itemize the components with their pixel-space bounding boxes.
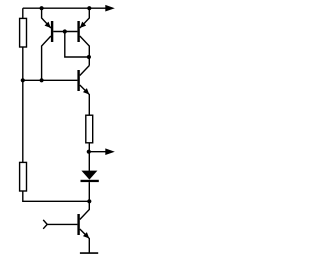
node dot left column node A [21,78,25,82]
node dot base net [63,29,67,33]
wire Q1 emitter lead [42,8,51,28]
ground [80,252,98,254]
transistor Q1 emitter arrow (PNP) [45,22,53,30]
diode D1 cathode bar [81,180,99,182]
resistor R1 [20,18,27,47]
supply output arrow [105,5,115,12]
transistor Q1 base bar [51,21,53,42]
resistor R3 [86,115,93,143]
wire top supply rail [23,7,106,9]
wire Q4 emitter lead [80,229,90,253]
wire output tap [89,151,106,153]
wire diode cathode to node N2 [88,182,90,201]
wire Q1 base to Q2 base [53,31,77,33]
transistor Q4 base bar [77,214,79,235]
diode D1 triangle [81,171,97,180]
node dot N2 [87,199,91,203]
transistor Q4 emitter arrow (NPN) [83,232,91,240]
wire Q4 base lead [47,223,77,225]
output arrow at tap [105,148,115,155]
wire Q4 collector lead [80,201,90,219]
resistor R2 [20,162,27,191]
wire base-collector tie of Q2 [65,32,89,58]
wire R1 top lead [22,8,24,18]
wire Q2 emitter lead [80,8,90,28]
node dot output tap [87,150,91,154]
input terminal chevron [43,220,47,229]
transistor Q2 emitter arrow (PNP) [78,22,86,30]
wire Q3 emitter lead [80,85,90,115]
node dot rail-Q1 emitter [40,6,44,10]
wire Q2 collector lead [80,36,90,66]
wire Q1 collector lead [42,36,51,80]
wire node A horizontal (left column to Q3 base) [23,79,78,81]
node dot Q1 collector node A [40,78,44,82]
transistor Q3 emitter arrow (NPN) [83,88,91,96]
node dot Q2 collector tie [87,55,91,59]
transistor Q3 base bar [77,70,79,91]
node dot rail-Q2 emitter [87,6,91,10]
transistor Q2 base bar [77,21,79,42]
wire R2 bottom lead to node N2 [23,191,90,201]
wire R3 bottom to diode anode [88,143,90,171]
wire Q3 collector diagonal [80,66,90,76]
wire left column R1 to R2 [22,47,24,162]
